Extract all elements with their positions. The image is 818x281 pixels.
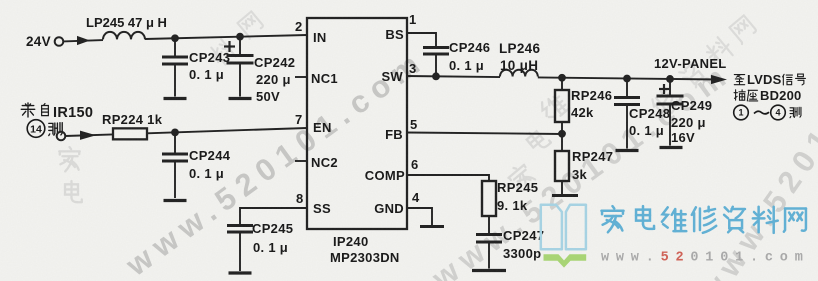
- ground CP245: [229, 271, 252, 274]
- resistor RP245 9.1k: [482, 180, 538, 234]
- resistor RP246 42k: [555, 78, 612, 134]
- resistor RP247 3k: [555, 134, 613, 194]
- node input junction CP243: [171, 34, 179, 42]
- wire LP246 to output: [538, 77, 719, 79]
- node SW junction CP248: [623, 75, 631, 83]
- ground GND pin: [420, 225, 444, 228]
- ground CP247: [472, 269, 506, 272]
- stub NC2: [295, 160, 307, 162]
- output arrow 12V-PANEL: [711, 75, 727, 84]
- node SW junction CP249: [666, 75, 674, 83]
- capacitor CP248 0.1u: [614, 78, 670, 148]
- IC U1 IP240 MP2303DN: [307, 18, 407, 265]
- wire BS pin 1 to CP246: [407, 32, 436, 34]
- node input junction CP242: [236, 33, 244, 41]
- wire FB pin 5: [407, 133, 562, 135]
- capacitor CP245 0.1u: [227, 221, 293, 271]
- wire SW pin 3 to LP246: [407, 76, 500, 77]
- ground CP242: [229, 97, 252, 100]
- capacitor CP244 0.1u: [162, 132, 231, 198]
- capacitor CP249 220u 16V (electrolytic, +): [657, 79, 713, 146]
- logo green band: [544, 254, 587, 267]
- resistor RP224 1k (horizontal): [102, 112, 163, 139]
- ground CP244: [164, 199, 187, 202]
- terminal 24V input circle: [55, 37, 64, 46]
- label source: from IR150 pin 14 (Chinese): [21, 103, 93, 121]
- wire EN input to RP224: [65, 134, 113, 136]
- ground CP248: [616, 149, 639, 152]
- stub NC1: [295, 76, 307, 78]
- wire GND pin 4: [407, 207, 432, 209]
- terminal EN input circle: [57, 132, 66, 141]
- wire LP245 to IN pin 2: [145, 35, 307, 39]
- logo text (Chinese calligraphy): [601, 206, 805, 233]
- capacitor CP247 3300p: [476, 228, 544, 269]
- node EN junction CP244: [171, 128, 179, 136]
- capacitor CP246 0.1u: [423, 40, 490, 78]
- ground CP243: [164, 97, 187, 100]
- node SW junction RP246: [558, 74, 566, 82]
- wire COMP pin 6 to RP245: [407, 174, 489, 176]
- node FB junction: [558, 130, 566, 138]
- label to LVDS connector BD200 pins 1-4 (Chinese): [734, 72, 806, 120]
- ground RP247: [552, 194, 578, 197]
- inductor LP245 47uH: [86, 15, 167, 39]
- node SW junction CP246: [432, 72, 440, 80]
- wire SS pin 8 to CP245: [240, 207, 307, 209]
- inductor LP246 10uH: [499, 41, 540, 77]
- wire RP224 to EN pin 7: [147, 128, 307, 133]
- wire 24V to LP245: [63, 40, 103, 41]
- capacitor CP242 220u 50V (electrolytic, +): [224, 37, 295, 104]
- logo book icon: [541, 205, 586, 250]
- capacitor CP243 0.1u: [162, 38, 230, 96]
- ground CP249: [660, 146, 683, 149]
- logo url www.520101.com: [601, 251, 810, 266]
